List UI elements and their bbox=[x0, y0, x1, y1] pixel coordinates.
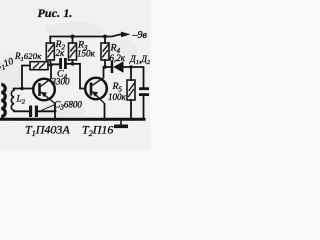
wire R2 bottom lead bbox=[49, 60, 51, 65]
node R4 top junction dot bbox=[103, 35, 107, 39]
node bus T1 emitter dot bbox=[53, 118, 56, 121]
node B junction dot (C4/R3/base) bbox=[71, 62, 75, 66]
bottom bus (common rail) bbox=[0, 118, 146, 121]
resistor R1 bbox=[30, 62, 48, 70]
wire R5 top lead bbox=[130, 67, 132, 80]
node bus T2 emitter dot bbox=[103, 118, 106, 121]
node R5 top junction dot bbox=[129, 65, 133, 69]
svg-text:Т2П16: Т2П16 bbox=[82, 123, 113, 139]
svg-text:Рис. 1.: Рис. 1. bbox=[38, 6, 73, 20]
coil L1 (antenna winding, cut by edge) bbox=[1, 85, 5, 117]
wire T1 base bbox=[14, 88, 34, 90]
node base T1 junction dot bbox=[20, 87, 24, 91]
wire T1 collector bbox=[50, 65, 52, 78]
power arrow -9v bbox=[121, 32, 131, 38]
wire diode anode line bbox=[105, 66, 110, 68]
wire R1 left lead to base bbox=[22, 66, 30, 89]
svg-text:–9в: –9в bbox=[132, 30, 148, 41]
wire R2 top drop bbox=[49, 37, 51, 44]
wire R3 top lead bbox=[72, 37, 74, 44]
svg-text:100к: 100к bbox=[108, 92, 127, 102]
coil L2 bbox=[11, 89, 14, 111]
wire R5 bottom lead bbox=[130, 100, 132, 119]
wire T2 emitter vertical bbox=[104, 104, 106, 119]
capacitor C3 bbox=[31, 106, 37, 118]
capacitor C4 bbox=[61, 58, 66, 69]
node A junction dot bbox=[49, 63, 53, 67]
wire R4 bottom to diode node bbox=[104, 60, 106, 67]
svg-text:150к: 150к bbox=[77, 49, 96, 59]
wire node A horizontals bbox=[48, 63, 59, 66]
wire R4 top lead bbox=[104, 37, 106, 44]
resistor R2 bbox=[46, 43, 54, 60]
transistor T1 bbox=[33, 79, 55, 104]
node diode anode junction dot bbox=[103, 65, 107, 69]
resistor R4 bbox=[101, 43, 109, 60]
ground symbol bbox=[120, 120, 122, 125]
transistor T2 bbox=[85, 78, 107, 104]
C3 label leader line bbox=[42, 105, 55, 111]
wire T2 collector bbox=[103, 67, 105, 78]
wire C3 to emitter bbox=[38, 110, 55, 112]
svg-text:6,2к: 6,2к bbox=[110, 53, 126, 63]
svg-text:3300: 3300 bbox=[51, 77, 71, 87]
resistor R3 bbox=[69, 43, 77, 60]
svg-text:2к: 2к bbox=[56, 48, 66, 58]
node bus R5 dot bbox=[129, 118, 132, 121]
diode D1,D2 bbox=[112, 61, 124, 73]
node R3 top junction dot bbox=[71, 35, 75, 39]
wire C4 to R3/T2 base bbox=[67, 64, 86, 89]
wire L2 bottom to C3 bbox=[14, 110, 29, 113]
node emitter/C3 junction dot bbox=[54, 110, 57, 113]
wire top bus bbox=[50, 34, 121, 36]
wire C5 bottom lead bbox=[143, 97, 145, 119]
wire R3 bottom lead bbox=[72, 60, 74, 64]
resistor R5 bbox=[127, 80, 135, 100]
capacitor C5 bbox=[139, 89, 149, 95]
wire diode to right corner bbox=[122, 67, 144, 87]
wire T1 emitter vertical bbox=[54, 104, 56, 119]
